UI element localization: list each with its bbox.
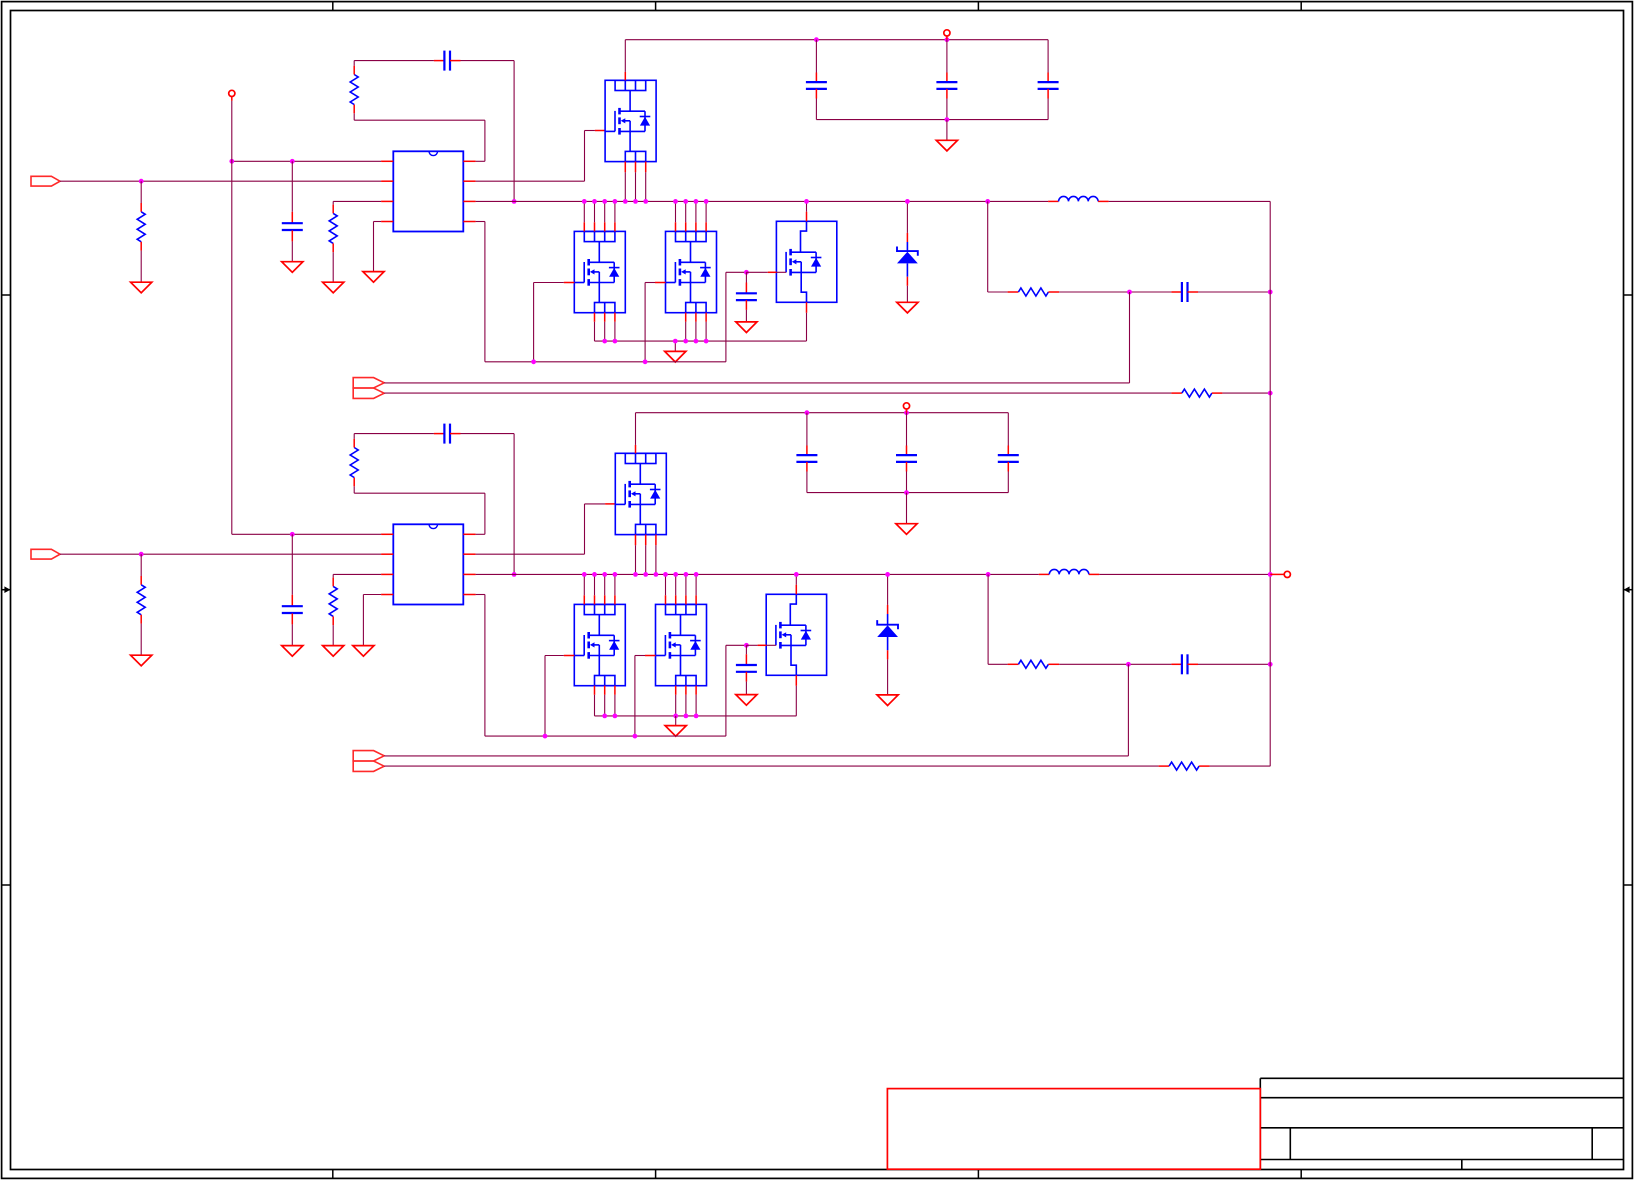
wire source bus bbox=[595, 340, 807, 342]
junction SW/feedback bbox=[985, 199, 990, 204]
resistor R5 bbox=[137, 554, 145, 655]
U1 pin stubs bbox=[381, 161, 476, 221]
wire SW node bus bbox=[476, 200, 1049, 202]
junction zener bbox=[905, 199, 910, 204]
junction Q1 sources bbox=[623, 199, 648, 204]
capacitor C7 gate bbox=[736, 645, 757, 694]
transistor Q7 low-side B bbox=[656, 604, 707, 685]
wire low-side source pins bbox=[595, 686, 697, 716]
wire bank gnd stem bbox=[946, 120, 948, 141]
wire feedback drop bbox=[988, 201, 1008, 292]
junction output node B bbox=[1268, 572, 1273, 577]
wire Q4 gate bbox=[746, 271, 776, 273]
junction Q8 drain bbox=[794, 572, 799, 577]
junction gate net bbox=[543, 643, 749, 739]
ground source bus 1 bbox=[665, 351, 686, 362]
junction Q4 drain bbox=[804, 199, 809, 204]
capacitor Cbank1a bbox=[806, 40, 827, 120]
wire Q8 gate bbox=[746, 644, 766, 646]
ground C7 bbox=[736, 695, 757, 706]
junction VIN rail bbox=[814, 37, 949, 42]
wire Q5 drain to VIN bbox=[635, 413, 637, 454]
junction SW/feedback bbox=[986, 572, 991, 577]
wire input net to U2 pin2 bbox=[60, 553, 381, 555]
junction source bus gnd bbox=[673, 339, 678, 344]
capacitor Cbank1c bbox=[1038, 40, 1059, 120]
junction output node bottom bbox=[1268, 391, 1273, 396]
ground source bus 2 bbox=[665, 726, 686, 737]
gate driver U2 bbox=[393, 524, 463, 604]
wire bank gnd stem bbox=[906, 493, 908, 524]
ground R6 bbox=[323, 646, 344, 657]
junction low-side drains bbox=[582, 199, 709, 204]
wire sense line bottom bbox=[384, 765, 1158, 767]
junction output node 1a bbox=[1268, 290, 1273, 295]
transistor Q1 high-side bbox=[605, 80, 656, 161]
capacitor Cbank2b bbox=[896, 413, 917, 493]
capacitor C6 feedback bbox=[434, 424, 461, 444]
wire U1 pin4 gate net bbox=[476, 222, 747, 362]
capacitor Cbank2c bbox=[998, 413, 1019, 493]
wire low-side drain pins bbox=[584, 201, 706, 231]
wire gnd stem source bus 2 bbox=[675, 716, 677, 726]
wire low-side source pins bbox=[595, 313, 707, 341]
ground C1 bbox=[282, 262, 303, 273]
ground input divider bbox=[131, 282, 152, 293]
wire U1 pin1-right bbox=[354, 120, 485, 161]
resistor R8 sense bbox=[1008, 660, 1060, 668]
wire sense mid bbox=[1059, 291, 1171, 293]
diode D1 zener bbox=[897, 201, 918, 302]
resistor R3 feedback bbox=[350, 61, 358, 121]
ground C5 bbox=[282, 646, 303, 657]
junction feedback/SW bbox=[512, 199, 517, 204]
wire Q-low gate B bbox=[645, 283, 665, 362]
border arrow left bbox=[2, 586, 11, 593]
wire gnd stem source bus 1 bbox=[674, 341, 676, 351]
wire Q1 source pins bbox=[625, 162, 645, 202]
ground zener 1 bbox=[897, 302, 918, 313]
wire sense to output bbox=[1198, 663, 1270, 665]
transistor Q3 low-side B bbox=[666, 231, 717, 312]
wire Q4 source bbox=[806, 302, 808, 341]
wire Q-low gate A bbox=[545, 656, 574, 737]
wire Q5 source pins bbox=[636, 535, 656, 575]
transistor Q2 low-side A bbox=[574, 231, 625, 312]
gate driver U1 bbox=[393, 151, 463, 231]
resistor R2 bbox=[329, 201, 381, 282]
wire Q1 drain to VIN bbox=[624, 40, 626, 81]
capacitor C1 bbox=[282, 161, 303, 261]
ground U2 pin4 bbox=[353, 646, 374, 657]
junction source bus bbox=[602, 339, 708, 344]
U2 pin stubs bbox=[381, 534, 476, 594]
resistor R7 feedback bbox=[350, 434, 358, 494]
transistor Q6 low-side A bbox=[574, 604, 625, 685]
junction gate net bbox=[531, 270, 749, 364]
junction Vref bbox=[290, 532, 295, 537]
port P1 input bbox=[31, 176, 60, 186]
ground input divider bbox=[131, 655, 152, 666]
power VIN 1 bbox=[944, 30, 950, 40]
inductor L1 bbox=[1048, 196, 1109, 201]
wire sense mid bbox=[1059, 663, 1171, 665]
wire Q8 source bbox=[795, 675, 797, 716]
capacitor C3 gate bbox=[736, 272, 757, 322]
wire VIN rail bbox=[625, 39, 1048, 41]
junction VIN rail bbox=[805, 410, 909, 415]
wire output vertical bbox=[1099, 201, 1270, 766]
junction sense mid bbox=[1126, 662, 1131, 667]
junction feedback/SW bbox=[512, 572, 517, 577]
wire low-side drain pins bbox=[584, 574, 696, 604]
capacitor C5 bbox=[282, 534, 303, 645]
wire SW node bus bbox=[476, 573, 1039, 575]
wire Q-low gate A bbox=[534, 283, 575, 362]
border arrow right bbox=[1624, 586, 1633, 593]
wire feedback top bbox=[354, 61, 514, 202]
title block bbox=[1260, 1078, 1623, 1169]
wire sense line top bbox=[384, 292, 1129, 383]
junction input/R bbox=[139, 552, 144, 557]
wire feedback drop bbox=[988, 574, 1008, 664]
junction output node 2a bbox=[1268, 662, 1273, 667]
junction input/R bbox=[139, 179, 144, 184]
wire U2 pin4 gate net bbox=[476, 595, 747, 737]
resistor R1 bbox=[137, 181, 145, 282]
wire U1 pin2 to Q1 gate bbox=[476, 131, 605, 182]
wire sense to output bbox=[1198, 291, 1270, 293]
capacitor C2 feedback bbox=[434, 51, 461, 71]
transistor Q8 single bbox=[766, 594, 826, 675]
power Vref circle bbox=[229, 90, 235, 101]
inductor L2 bbox=[1039, 569, 1100, 574]
port P2 input bbox=[31, 549, 60, 559]
capacitor C4 sense bbox=[1171, 282, 1198, 302]
wire U2 pin4-left bbox=[363, 595, 381, 646]
wire input net to U1 pin2 bbox=[60, 180, 381, 182]
wire U2 pin2 to Q5 gate bbox=[476, 504, 616, 554]
ground cap bank 2 bbox=[896, 524, 917, 535]
wire sense line bottom bbox=[384, 392, 1171, 394]
ground U1 pin4 bbox=[363, 272, 384, 283]
junction Q5 sources bbox=[633, 572, 658, 577]
wire sense bottom to output bbox=[1210, 765, 1271, 767]
junction bank gnd bbox=[904, 490, 909, 495]
junction bank gnd bbox=[945, 117, 950, 122]
port P1s sense dual bbox=[353, 378, 384, 399]
capacitor Cbank1b bbox=[936, 40, 957, 120]
port P2s sense dual bbox=[353, 751, 384, 772]
resistor R8b bbox=[1159, 762, 1210, 770]
wire Vref net y161 bbox=[232, 160, 381, 162]
wire Q8 drain bbox=[795, 574, 797, 594]
wire sense bottom to output bbox=[1222, 392, 1270, 394]
wire Q-low gate B bbox=[635, 656, 656, 737]
diode D2 zener bbox=[877, 574, 898, 695]
capacitor Cbank2a bbox=[796, 413, 817, 493]
junction low-side drains bbox=[582, 572, 699, 577]
junction Vref cap bbox=[290, 159, 295, 164]
wire source bus bbox=[595, 715, 797, 717]
resistor R6 bbox=[329, 574, 381, 645]
junction zener bbox=[885, 572, 890, 577]
wire Vref net y534 bbox=[232, 533, 381, 535]
resistor R4b bbox=[1171, 389, 1222, 397]
transistor Q5 high-side bbox=[615, 453, 666, 534]
power VIN 2 bbox=[903, 403, 909, 413]
resistor R4 sense bbox=[1008, 288, 1060, 296]
capacitor C8 sense bbox=[1171, 654, 1198, 674]
wire U2 pin1-right bbox=[354, 493, 485, 534]
wire Vref vertical bbox=[231, 101, 233, 535]
transistor Q4 single bbox=[776, 221, 836, 302]
ground C3 bbox=[736, 322, 757, 333]
title block red box bbox=[887, 1089, 1260, 1170]
wire VIN rail bbox=[636, 412, 1009, 414]
ground R2 bbox=[323, 282, 344, 293]
junction source bus bbox=[602, 714, 698, 719]
ground cap bank 1 bbox=[936, 140, 957, 151]
wire U1 pin4-left bbox=[374, 222, 382, 272]
wire feedback top bbox=[354, 434, 514, 575]
wire VIN return rail bbox=[807, 492, 1008, 494]
wire VIN return rail bbox=[816, 119, 1048, 121]
ground zener 2 bbox=[877, 695, 898, 706]
output terminal circle bbox=[1270, 571, 1290, 577]
wire Q4 drain bbox=[806, 201, 808, 221]
wire sense line top bbox=[384, 664, 1128, 756]
junction Vref bbox=[229, 159, 234, 164]
junction sense mid bbox=[1127, 290, 1132, 295]
